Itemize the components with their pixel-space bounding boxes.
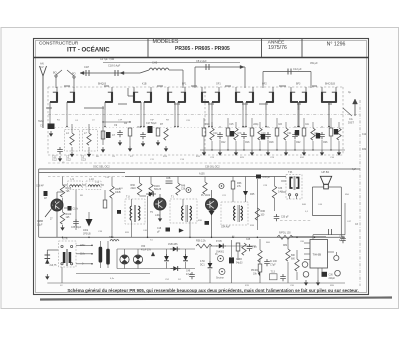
svg-text:100k: 100k <box>83 230 89 232</box>
svg-text:R56 2,2k: R56 2,2k <box>196 240 206 243</box>
svg-text:220µF: 220µF <box>329 278 336 280</box>
svg-text:BHC/5LB: BHC/5LB <box>325 83 335 86</box>
svg-text:BF3: BF3 <box>296 83 301 86</box>
svg-text:C21: C21 <box>287 133 292 135</box>
svg-text:94µ33: 94µ33 <box>236 262 243 264</box>
svg-text:C46R: C46R <box>236 259 242 261</box>
svg-text:R18: R18 <box>269 142 274 144</box>
svg-text:C12: C12 <box>362 134 367 136</box>
svg-text:C36: C36 <box>181 189 186 191</box>
svg-text:C103: C103 <box>339 237 345 239</box>
svg-text:C17 50µF: C17 50µF <box>146 122 157 125</box>
svg-text:PL 1402: PL 1402 <box>201 194 211 197</box>
svg-text:C7F: C7F <box>118 120 123 122</box>
svg-text:CV: CV <box>40 65 44 69</box>
svg-text:4µF: 4µF <box>352 169 357 171</box>
svg-text:MODELES: MODELES <box>153 39 179 45</box>
svg-text:10kB: 10kB <box>115 191 121 194</box>
svg-text:T.13: T.13 <box>271 272 276 274</box>
svg-text:7,5V: 7,5V <box>252 247 257 249</box>
svg-text:N° 1296: N° 1296 <box>327 41 346 47</box>
svg-text:5R125: 5R125 <box>154 188 162 191</box>
svg-text:PR400: PR400 <box>251 270 259 272</box>
svg-text:1P: 1P <box>44 197 47 200</box>
svg-text:C8 2,2µF: C8 2,2µF <box>196 59 207 63</box>
svg-text:Hobd: Hobd <box>38 120 44 123</box>
svg-text:ITT - OCÉANIC: ITT - OCÉANIC <box>67 45 110 53</box>
svg-text:R0R: R0R <box>261 211 266 213</box>
svg-text:7k5: 7k5 <box>66 190 71 193</box>
svg-text:C1P: C1P <box>84 65 89 69</box>
svg-text:OSC SEL OC2: OSC SEL OC2 <box>93 166 110 169</box>
svg-text:T.U.: T.U. <box>126 196 131 199</box>
svg-text:C7µF: C7µF <box>270 265 276 267</box>
svg-text:1P5/LB: 1P5/LB <box>83 233 91 235</box>
svg-text:BHQLB: BHQLB <box>98 83 107 86</box>
svg-text:C6B: C6B <box>166 178 171 180</box>
svg-text:DIST: DIST <box>348 121 354 125</box>
svg-text:47µF 35V: 47µF 35V <box>141 249 151 251</box>
svg-text:OF1: OF1 <box>216 83 221 86</box>
svg-text:IC 100: IC 100 <box>270 261 277 263</box>
svg-text:CC2: CC2 <box>66 159 71 162</box>
svg-text:Secteur: Secteur <box>216 277 224 280</box>
svg-text:C9A 4µF: C9A 4µF <box>221 226 231 229</box>
svg-text:C18 0,4µF: C18 0,4µF <box>108 64 121 68</box>
svg-text:T.I.: T.I. <box>171 196 175 199</box>
svg-text:C49: C49 <box>186 271 191 273</box>
svg-text:C08 4F: C08 4F <box>36 185 44 188</box>
svg-text:R48: R48 <box>181 186 186 188</box>
svg-text:CONSTRUCTEUR: CONSTRUCTEUR <box>39 41 79 46</box>
svg-text:R26: R26 <box>323 142 328 144</box>
svg-text:80K: 80K <box>291 255 296 257</box>
svg-text:R82: R82 <box>283 245 288 247</box>
svg-text:C36 30L.OC2: C36 30L.OC2 <box>205 166 220 169</box>
svg-text:C30 µF: C30 µF <box>281 217 289 219</box>
svg-text:OF2: OF2 <box>262 83 267 86</box>
svg-text:R/PDL 150: R/PDL 150 <box>279 232 291 235</box>
svg-text:T5F: T5F <box>150 120 155 122</box>
svg-text:R12: R12 <box>221 142 226 144</box>
svg-text:C50: C50 <box>141 246 146 248</box>
svg-text:A105: A105 <box>199 173 205 176</box>
svg-text:CY: CY <box>40 125 44 128</box>
svg-text:1k5: 1k5 <box>66 216 71 219</box>
svg-text:1975/76: 1975/76 <box>268 45 287 51</box>
svg-text:220p: 220p <box>253 124 259 126</box>
svg-text:C18: C18 <box>157 228 162 230</box>
svg-text:T.M.: T.M. <box>288 171 293 174</box>
svg-text:TIH 6B: TIH 6B <box>313 253 322 257</box>
svg-text:HP 8Ω: HP 8Ω <box>322 170 330 174</box>
svg-text:D05: D05 <box>250 193 255 196</box>
svg-text:L.10: L.10 <box>89 178 94 181</box>
svg-text:22k0: 22k0 <box>131 187 137 190</box>
svg-text:2x0,75: 2x0,75 <box>50 265 58 267</box>
svg-text:R10: R10 <box>205 124 210 126</box>
svg-text:C35 50µF: C35 50µF <box>71 227 82 229</box>
svg-text:R22: R22 <box>296 142 301 144</box>
svg-text:10µF: 10µF <box>37 223 43 226</box>
svg-text:PR305 - PR605 - PR905: PR305 - PR605 - PR905 <box>175 46 230 52</box>
svg-text:C12 µF: C12 µF <box>293 67 302 71</box>
svg-text:C19: C19 <box>261 133 266 135</box>
svg-text:C4 7µF 7,5W: C4 7µF 7,5W <box>100 58 115 61</box>
svg-text:C10k: C10k <box>73 209 79 211</box>
svg-text:CC2: CC2 <box>52 159 57 162</box>
svg-text:KY05: KY05 <box>216 241 222 243</box>
svg-text:CA: CA <box>349 117 353 121</box>
svg-text:BF1: BF1 <box>182 83 187 86</box>
svg-text:C35 µF: C35 µF <box>263 177 271 179</box>
svg-text:C45: C45 <box>246 239 251 241</box>
svg-text:NTC: NTC <box>109 237 114 239</box>
svg-text:C36: C36 <box>278 188 283 190</box>
svg-text:R16: R16 <box>245 142 250 144</box>
svg-text:K1B: K1B <box>142 83 147 86</box>
svg-text:C36: C36 <box>329 275 334 277</box>
svg-text:F-50: F-50 <box>200 261 205 263</box>
svg-text:C14: C14 <box>213 133 218 135</box>
svg-text:AN: AN <box>40 62 44 66</box>
svg-text:CC3: CC3 <box>81 159 86 162</box>
svg-text:4W µF: 4W µF <box>310 61 318 65</box>
svg-text:C24: C24 <box>314 133 319 135</box>
svg-text:D32: D32 <box>362 149 367 151</box>
svg-text:C15: C15 <box>229 124 234 126</box>
svg-text:A.TR: A.TR <box>62 238 68 241</box>
svg-text:BO: BO <box>53 72 57 75</box>
svg-text:DC1: DC1 <box>200 265 205 267</box>
svg-text:Schéma général du récepteur PR: Schéma général du récepteur PR 905, qui … <box>67 288 358 293</box>
svg-text:1N5148S: 1N5148S <box>168 244 178 246</box>
svg-text:PO: PO <box>72 73 76 76</box>
svg-text:7F8: 7F8 <box>137 126 142 129</box>
